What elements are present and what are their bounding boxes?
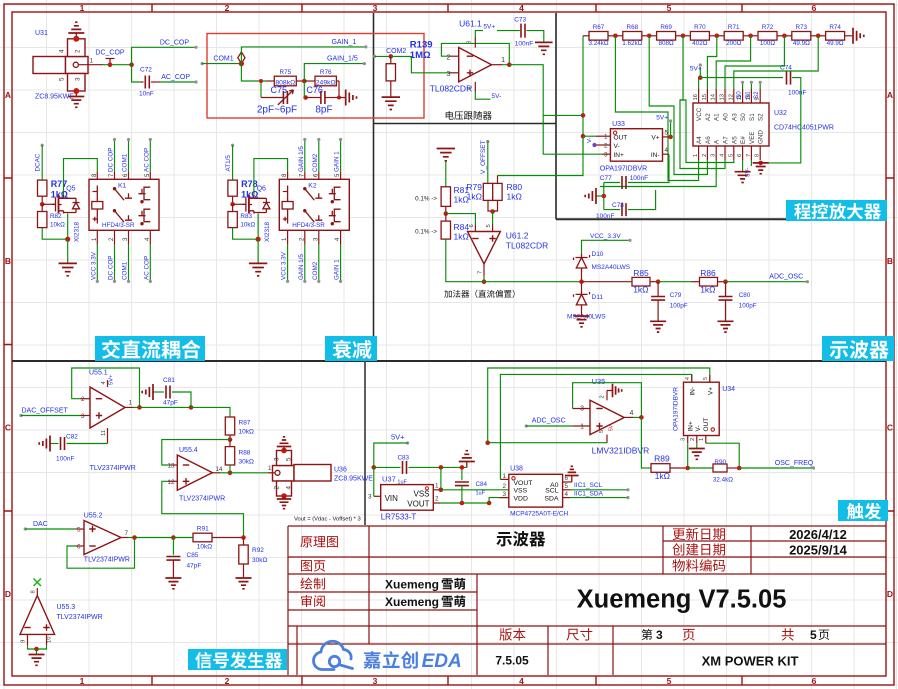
svg-text:R70: R70 [694, 24, 706, 31]
svg-text:U33: U33 [612, 121, 625, 128]
svg-text:1: 1 [268, 465, 272, 472]
capacitor C73 [497, 30, 520, 32]
svg-text:4: 4 [286, 486, 293, 490]
svg-text:VCC 3.3V: VCC 3.3V [281, 251, 288, 280]
svg-text:5: 5 [486, 224, 492, 227]
svg-text:GAIN_1/5: GAIN_1/5 [327, 55, 358, 62]
svg-text:3: 3 [81, 413, 85, 420]
U35 pin2 gnd [606, 391, 608, 401]
svg-text:6: 6 [737, 154, 743, 157]
svg-text:Q6: Q6 [257, 186, 266, 193]
wire R76 to gnd [338, 81, 340, 98]
svg-text:OUT: OUT [614, 135, 628, 142]
wire VSS net to U38 [440, 489, 442, 492]
svg-text:E#: E# [740, 136, 747, 144]
svg-text:A0: A0 [723, 113, 730, 121]
section label 交直流耦合 [95, 336, 205, 361]
svg-text:30kΩ: 30kΩ [252, 557, 267, 564]
svg-text:HFD4/3-SR: HFD4/3-SR [102, 222, 135, 229]
long wire V+ to U34 [488, 368, 710, 443]
section divider horizontal middle [12, 360, 886, 362]
U37 pin2 VOUT [433, 502, 441, 504]
op-amp U61.1 [459, 48, 492, 82]
resistor R77 [38, 180, 47, 196]
net flag COM2 [373, 55, 376, 58]
resistor R84 [445, 214, 447, 222]
svg-text:R82: R82 [50, 213, 62, 220]
svg-text:C: C [887, 423, 893, 433]
ic U37 LR7533 [381, 485, 434, 511]
svg-text:R71: R71 [728, 24, 740, 31]
pin2 feedback wire [450, 55, 459, 57]
svg-text:R77: R77 [51, 179, 68, 189]
svg-text:32.4kΩ: 32.4kΩ [713, 477, 733, 484]
U32 pin 10 S1 [750, 89, 752, 103]
svg-text:U37: U37 [382, 475, 396, 484]
section label 示波器 [822, 336, 894, 361]
junction R90 out [737, 466, 742, 471]
wire GAIN_1/5 [304, 64, 364, 81]
svg-text:1kΩ: 1kΩ [454, 232, 469, 242]
svg-text:V+: V+ [708, 387, 715, 395]
junction source/gnd [256, 237, 261, 242]
svg-text:MS2A40LWS: MS2A40LWS [592, 264, 631, 271]
resistor R79 [483, 183, 492, 200]
junction R85/C79 [650, 281, 658, 283]
label voltage follower [446, 111, 492, 120]
svg-text:DC COP: DC COP [108, 256, 115, 281]
relay pin 6 [128, 172, 130, 179]
wire R79 R80 bottoms [488, 200, 493, 211]
svg-text:B: B [5, 256, 11, 266]
svg-text:1kΩ: 1kΩ [700, 285, 715, 295]
title label reviewed by [301, 595, 325, 607]
svg-text:A4: A4 [696, 136, 703, 144]
svg-text:K2: K2 [308, 183, 317, 190]
svg-text:AT1/5: AT1/5 [225, 155, 232, 172]
U33 pin3 IN+ [602, 153, 611, 155]
svg-text:U36: U36 [334, 467, 347, 474]
svg-text:AC_COP: AC_COP [161, 74, 190, 81]
svg-text:8: 8 [31, 590, 37, 593]
svg-text:GAIN_1: GAIN_1 [331, 39, 356, 46]
svg-text:10: 10 [47, 637, 53, 643]
resistor R87 [225, 417, 234, 435]
svg-text:A1: A1 [714, 113, 721, 121]
svg-text:VCC 3.3V: VCC 3.3V [90, 251, 97, 280]
svg-text:VEE: VEE [749, 131, 756, 144]
svg-text:A: A [887, 90, 893, 100]
U32 pin 14 A1 [715, 89, 717, 103]
net flag COM1 [201, 62, 204, 65]
U55.4 output to BNC [212, 472, 220, 474]
svg-text:5: 5 [667, 676, 672, 686]
svg-text:4: 4 [519, 676, 524, 686]
svg-text:30kΩ: 30kΩ [239, 459, 254, 466]
svg-text:3: 3 [604, 152, 608, 159]
U32 pin 13 A0 [724, 89, 726, 103]
resistor R75 [266, 80, 274, 82]
svg-text:6: 6 [469, 224, 475, 227]
svg-text:2: 2 [600, 395, 606, 398]
svg-text:R68: R68 [627, 24, 639, 31]
svg-text:U31: U31 [35, 30, 48, 37]
pin4 stub [107, 380, 109, 387]
svg-text:VDD: VDD [514, 496, 528, 503]
section divider vertical left-top [373, 13, 375, 361]
wire AC_COP [160, 81, 196, 83]
capacitor C75 variable [260, 81, 262, 98]
svg-text:15: 15 [702, 94, 708, 100]
wire to C72 [132, 65, 141, 82]
relay pin 7 [304, 172, 306, 179]
resistor R72 [758, 32, 777, 41]
svg-text:47pF: 47pF [163, 400, 178, 407]
svg-text:5V-: 5V- [492, 93, 502, 100]
svg-text:IIC1_SDA: IIC1_SDA [574, 490, 604, 497]
svg-text:C79: C79 [670, 292, 682, 299]
relay pin 1 [96, 230, 98, 244]
svg-text:OPA197IDBVR: OPA197IDBVR [600, 166, 647, 173]
svg-text:49.9Ω: 49.9Ω [793, 40, 810, 47]
svg-text:5: 5 [565, 483, 569, 490]
ladder wire [582, 36, 584, 154]
svg-text:A: A [5, 90, 11, 100]
svg-text:R86: R86 [700, 268, 716, 278]
svg-text:ADC_OSC: ADC_OSC [532, 418, 566, 425]
ic U38 MCP4725 [509, 474, 563, 507]
svg-text:R90: R90 [714, 459, 726, 466]
svg-text:100pF: 100pF [670, 303, 688, 310]
svg-text:6: 6 [812, 676, 817, 686]
svg-text:C82: C82 [66, 434, 78, 441]
U35 feedback [573, 408, 590, 410]
svg-text:1: 1 [580, 423, 584, 430]
capacitor C80 [725, 282, 727, 297]
U33 pin5 V+ 5V+ flag [663, 136, 671, 138]
ground below D11 [581, 309, 583, 316]
relay pin 2 [304, 230, 306, 244]
U32 pin 3 A [715, 146, 717, 160]
junction R87/R88 [229, 435, 231, 440]
svg-text:VCC_3.3V: VCC_3.3V [590, 233, 621, 240]
ladder right ground [845, 35, 852, 37]
svg-text:402Ω: 402Ω [692, 40, 708, 47]
svg-text:Q5: Q5 [66, 186, 75, 193]
U38 pin4 SDA [563, 497, 570, 499]
svg-text:2: 2 [690, 438, 696, 441]
svg-text:3: 3 [373, 3, 378, 13]
section divider voltage-follower bottom [374, 123, 557, 125]
junction C83 gnd rail [439, 465, 444, 470]
svg-text:D11: D11 [592, 294, 604, 301]
resistor R80 [493, 183, 502, 200]
svg-text:V-: V- [695, 425, 702, 431]
relay pin 5 [340, 172, 342, 179]
svg-text:XI2318: XI2318 [264, 222, 271, 242]
U38 pin3 VDD [499, 497, 509, 499]
svg-text:1: 1 [435, 483, 439, 490]
V+ rail wire [488, 442, 607, 444]
U38 pin5 SCL [563, 489, 570, 491]
U34 pin2 V- ground [696, 436, 698, 444]
svg-text:100nF: 100nF [788, 90, 806, 97]
svg-text:MCP4725A0T-E/CH: MCP4725A0T-E/CH [510, 511, 568, 518]
U34 pin1 OUT [705, 436, 707, 444]
svg-text:12: 12 [728, 94, 734, 100]
svg-text:C72: C72 [140, 67, 152, 74]
svg-text:2: 2 [435, 496, 439, 503]
svg-text:4: 4 [665, 147, 669, 154]
svg-text:ZC8.95KWE: ZC8.95KWE [334, 476, 373, 483]
svg-text:C75: C75 [271, 85, 288, 95]
svg-text:14: 14 [711, 93, 717, 100]
svg-text:VOUT: VOUT [514, 480, 533, 487]
U32 pin 2 A6 [706, 146, 708, 160]
U32 pin 1 A4 [698, 146, 700, 160]
svg-text:1uF: 1uF [476, 491, 486, 497]
wire to U55.4 pin13 [162, 440, 230, 465]
svg-text:C73: C73 [514, 17, 526, 24]
svg-text:TLV2374IPWR: TLV2374IPWR [84, 557, 130, 564]
diode D11 [574, 290, 590, 309]
adder output rail [446, 239, 582, 282]
svg-text:2: 2 [702, 154, 708, 157]
resistor R86 [691, 281, 700, 283]
svg-text:5V+: 5V+ [656, 115, 668, 122]
svg-text:3: 3 [580, 406, 584, 413]
svg-text:DAC: DAC [33, 521, 48, 528]
svg-text:OPA197IDBVR: OPA197IDBVR [673, 387, 680, 431]
svg-text:C85: C85 [187, 552, 199, 559]
resistor R70 [690, 32, 709, 41]
junction R78/R83 [230, 202, 235, 207]
svg-text:1: 1 [80, 676, 85, 686]
svg-text:V-: V- [587, 137, 593, 143]
U32 pin 15 A2 [706, 89, 708, 103]
svg-text:1: 1 [80, 3, 85, 13]
U32 pin 4 A7 [724, 146, 726, 160]
svg-text:100pF: 100pF [739, 303, 757, 310]
resistor R91 [173, 537, 193, 539]
pin8 5V+ and C73 [474, 37, 476, 48]
junction ladder 4 [715, 34, 720, 39]
svg-text:200Ω: 200Ω [726, 40, 742, 47]
5V+ rail to VCC [698, 78, 700, 89]
junction C85 [171, 535, 176, 540]
svg-text:DCAC: DCAC [35, 153, 42, 171]
net stub COM2 [318, 140, 320, 173]
svg-text:100nF: 100nF [630, 175, 648, 182]
svg-text:A5: A5 [731, 136, 738, 144]
ground U32 GND [758, 161, 763, 166]
wire ladder to adder R80 net [498, 136, 584, 175]
net label OSC_FREQ [739, 467, 813, 469]
U35 pin5 [606, 435, 608, 443]
svg-text:8pF: 8pF [315, 105, 332, 116]
staircase top wires [707, 36, 716, 89]
logo JLC EDA text [364, 651, 418, 669]
svg-text:V_OFFSET: V_OFFSET [480, 140, 487, 174]
ground attenuator [337, 96, 341, 100]
svg-text:R80: R80 [507, 182, 523, 192]
svg-text:5V: 5V [609, 424, 615, 431]
svg-text:2: 2 [446, 53, 450, 62]
svg-text:OSC_FREQ: OSC_FREQ [775, 460, 814, 467]
net stub VCC 3.3V [287, 245, 289, 282]
logo JLC EDA cloud [314, 641, 353, 669]
svg-text:S2: S2 [753, 91, 760, 99]
wire out to R87 [191, 407, 230, 417]
svg-text:R85: R85 [633, 268, 649, 278]
wire COM2 to opamp [391, 56, 449, 72]
svg-text:13: 13 [167, 463, 175, 470]
resistor R76 [304, 80, 315, 82]
svg-text:16: 16 [693, 94, 699, 100]
svg-text:Xuemeng: Xuemeng [385, 578, 439, 592]
wire to DC_COP label [132, 47, 196, 64]
net flag ADC_OSC in [525, 424, 528, 427]
U33 pin2 V- [596, 144, 610, 146]
U33 pin1 OUT [596, 135, 610, 137]
svg-text:VCC: VCC [696, 107, 703, 121]
U37 pin1 VSS [433, 489, 441, 491]
diode D10 [574, 254, 590, 272]
net label ADC_OSC [726, 281, 808, 283]
long wire U38 VOUT to U34 IN- [500, 374, 691, 479]
pin4 5V- [474, 82, 476, 92]
wire R80 top [497, 176, 499, 184]
U34 top pin stubs [691, 375, 693, 382]
inverted ground on rail [466, 462, 468, 468]
wire U31 pin1 [78, 64, 103, 66]
net stub GAIN 1/5 [304, 140, 306, 173]
ground above R81 [437, 149, 455, 161]
svg-text:2: 2 [75, 49, 82, 53]
svg-text:COM1: COM1 [213, 56, 233, 63]
svg-text:2026/4/12: 2026/4/12 [789, 527, 847, 542]
junction COM2/R139 [389, 54, 394, 59]
net stub DC COP [114, 245, 116, 282]
title sheet name [496, 531, 545, 547]
net stub DC COP [114, 140, 116, 173]
svg-text:DAC_OFFSET: DAC_OFFSET [22, 407, 69, 414]
svg-text:4: 4 [630, 410, 634, 417]
resistor R139 [390, 56, 392, 63]
net stub GAIN 1/5 [304, 245, 306, 282]
svg-text:VSS: VSS [413, 490, 429, 499]
ground above U36 [281, 448, 287, 454]
junction ladder 7 [816, 34, 821, 39]
svg-text:R79: R79 [466, 182, 482, 192]
junction ladder 1 [613, 34, 618, 39]
capacitor C78 [604, 209, 620, 211]
op-amp U61.2 [468, 232, 501, 265]
svg-text:5: 5 [728, 154, 734, 157]
svg-text:7: 7 [125, 530, 129, 537]
svg-text:Xuemeng: Xuemeng [385, 595, 439, 609]
U32 pin 7 VEE [750, 146, 752, 160]
U32 pin 12 A3 [733, 89, 735, 103]
ground C73 [535, 42, 553, 54]
svg-text:5V+: 5V+ [483, 24, 495, 31]
svg-text:VIN: VIN [385, 494, 399, 503]
ground below U31 [75, 91, 77, 97]
relay pin 2 [114, 230, 116, 244]
U32 pin 5 A5 [733, 146, 735, 160]
relay pin 6 [318, 172, 320, 179]
connector U31 [33, 39, 88, 91]
svg-text:3: 3 [274, 457, 281, 461]
relay pin 3 [318, 230, 320, 244]
svg-text:R83: R83 [240, 213, 252, 220]
op-amp U35 [590, 400, 624, 434]
label adder [444, 290, 514, 298]
svg-text:SDA: SDA [545, 496, 559, 503]
svg-text:XM POWER KIT: XM POWER KIT [702, 654, 799, 669]
svg-text:U32: U32 [774, 110, 787, 117]
svg-text:1.62kΩ: 1.62kΩ [622, 40, 642, 47]
svg-text:XI2318: XI2318 [74, 222, 81, 242]
net flag DAC_OFFSET [19, 414, 22, 417]
svg-text:7.5.05: 7.5.05 [495, 654, 529, 668]
U55.2 feedback [76, 545, 84, 547]
svg-text:1: 1 [693, 154, 699, 157]
svg-text:C77: C77 [600, 175, 612, 182]
VEE 5V- stub [750, 160, 752, 166]
title label page [301, 560, 325, 571]
svg-text:B: B [887, 256, 893, 266]
svg-text:8: 8 [755, 154, 761, 157]
svg-text:2: 2 [502, 483, 506, 490]
svg-text:R89: R89 [654, 454, 670, 464]
svg-text:1kΩ: 1kΩ [467, 192, 482, 202]
svg-text:49.9Ω: 49.9Ω [827, 40, 844, 47]
svg-text:OUT: OUT [703, 418, 710, 432]
svg-text:V-: V- [614, 143, 620, 150]
svg-text:1: 1 [129, 400, 133, 407]
svg-text:VSS: VSS [514, 487, 528, 494]
junction ladder 3 [681, 34, 686, 39]
junction node U31 out [129, 62, 134, 67]
svg-text:3: 3 [502, 491, 506, 498]
svg-text:EDA: EDA [422, 651, 462, 672]
svg-text:5V+: 5V+ [391, 433, 405, 442]
capacitor C85 [172, 538, 174, 555]
svg-text:R72: R72 [762, 24, 774, 31]
net stub COM2 [318, 245, 320, 282]
svg-text:5: 5 [667, 3, 672, 13]
title page numbers [642, 629, 653, 640]
svg-text:V+: V+ [651, 135, 659, 142]
svg-text:5: 5 [59, 77, 66, 81]
svg-text:3: 3 [373, 676, 378, 686]
section label 衰减 [325, 336, 377, 361]
ground below U55.3 [36, 649, 38, 655]
wire R81 node to pin6 [446, 214, 476, 225]
svg-text:IN-: IN- [651, 152, 660, 159]
ground below U36 [281, 493, 287, 499]
junction R81/R84 [445, 206, 447, 213]
svg-text:GAIN 1: GAIN 1 [334, 259, 341, 280]
wire source to gnd [42, 228, 67, 240]
resistor R89 [643, 467, 651, 469]
op-amp U55.4 [177, 455, 212, 490]
svg-text:U55.1: U55.1 [89, 370, 108, 377]
svg-text:2: 2 [81, 396, 85, 403]
title label create date [672, 543, 725, 555]
net stub COM1 [128, 245, 130, 282]
